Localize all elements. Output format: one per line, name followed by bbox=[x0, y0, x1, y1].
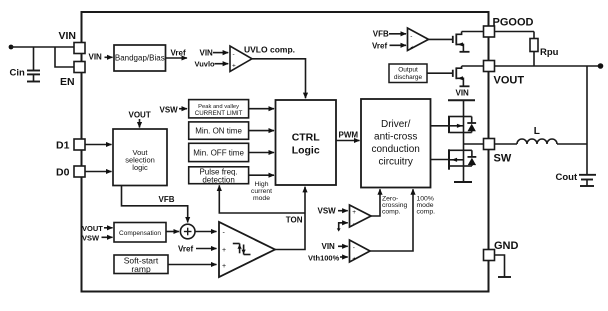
node VOUT into compensation bbox=[82, 224, 113, 233]
svg-text:VIN: VIN bbox=[59, 30, 77, 42]
svg-text:circuitry: circuitry bbox=[378, 157, 412, 168]
block current limit bbox=[189, 100, 249, 118]
svg-text:Min. ON time: Min. ON time bbox=[195, 127, 242, 136]
svg-text:UVLO comp.: UVLO comp. bbox=[244, 44, 295, 54]
op-amp UVLO comp U1 bbox=[195, 44, 296, 71]
comparator 100% mode bbox=[308, 240, 370, 263]
block Min OFF time bbox=[189, 143, 249, 161]
wire 100% mode output to driver bbox=[370, 189, 435, 251]
svg-text:Logic: Logic bbox=[292, 145, 320, 157]
pin VIN bbox=[59, 30, 86, 54]
diode body low-side bbox=[464, 150, 477, 166]
svg-text:current: current bbox=[251, 188, 272, 195]
svg-text:VOUT: VOUT bbox=[82, 224, 103, 233]
svg-text:SW: SW bbox=[494, 152, 512, 164]
block Soft-start ramp bbox=[114, 255, 168, 274]
svg-text:logic: logic bbox=[132, 163, 148, 172]
node input dot bbox=[9, 45, 14, 50]
IC boundary bbox=[82, 12, 489, 292]
svg-text:+: + bbox=[232, 63, 236, 70]
pin EN bbox=[60, 62, 85, 89]
transistor low-side Q2 bbox=[431, 144, 464, 182]
svg-text:VSW: VSW bbox=[160, 105, 179, 114]
wire PWM CTRL to driver bbox=[336, 131, 360, 141]
svg-text:discharge: discharge bbox=[394, 74, 423, 81]
svg-text:comp.: comp. bbox=[382, 209, 401, 216]
wire D0 to selection logic bbox=[85, 171, 112, 173]
pin VOUT bbox=[484, 61, 525, 87]
transistor PGOOD open-drain bbox=[429, 32, 484, 52]
transistor output discharge bbox=[427, 66, 484, 86]
wire compensation to summing node bbox=[166, 231, 179, 233]
pin D1 bbox=[56, 139, 85, 152]
block Pulse freq detection bbox=[189, 167, 249, 185]
svg-text:PGOOD: PGOOD bbox=[493, 17, 534, 29]
block Output discharge bbox=[389, 64, 427, 83]
block Vout selection logic bbox=[113, 129, 167, 186]
svg-text:conduction: conduction bbox=[372, 144, 420, 155]
svg-text:EN: EN bbox=[60, 76, 75, 88]
svg-text:detection: detection bbox=[202, 175, 234, 184]
power VIN supply bar bbox=[448, 89, 475, 101]
svg-text:D1: D1 bbox=[56, 140, 70, 152]
pin SW bbox=[484, 139, 512, 165]
capacitor Cin bbox=[10, 47, 41, 82]
capacitor Cout bbox=[556, 172, 597, 186]
resistor Rpu bbox=[495, 32, 559, 67]
svg-text:VIN: VIN bbox=[322, 242, 336, 251]
svg-text:-: - bbox=[223, 230, 226, 237]
svg-text:Vref: Vref bbox=[171, 49, 186, 58]
svg-text:GND: GND bbox=[494, 240, 519, 252]
block Min ON time bbox=[189, 122, 249, 139]
wire UVLO output to CTRL bbox=[252, 59, 306, 98]
svg-text:-: - bbox=[353, 244, 355, 251]
svg-text:VIN: VIN bbox=[200, 49, 214, 58]
wire D1 to selection logic bbox=[85, 144, 112, 146]
transistor high-side Q1 bbox=[431, 100, 464, 144]
wire branch to pulse freq detection bbox=[219, 185, 305, 213]
block Compensation bbox=[114, 223, 166, 243]
inductor L bbox=[495, 126, 588, 144]
node Vref into comparator bbox=[178, 244, 217, 253]
block CTRL Logic bbox=[276, 100, 337, 185]
node summing junction bbox=[180, 224, 195, 239]
wire min on to CTRL bbox=[249, 130, 274, 132]
svg-text:-: - bbox=[233, 51, 235, 58]
svg-text:-: - bbox=[353, 220, 355, 227]
node Vref output of bandgap bbox=[166, 49, 188, 58]
pin PGOOD bbox=[484, 17, 534, 38]
svg-text:Cout: Cout bbox=[556, 172, 578, 183]
wire pulse freq to CTRL high current mode bbox=[249, 175, 274, 202]
svg-text:+: + bbox=[410, 44, 414, 51]
wire VFB from selection logic to summing node bbox=[122, 186, 188, 223]
wire VIN input bbox=[11, 46, 74, 48]
svg-text:VIN: VIN bbox=[456, 89, 470, 98]
svg-text:VFB: VFB bbox=[159, 195, 175, 204]
svg-text:Cin: Cin bbox=[10, 68, 26, 79]
svg-text:PWM: PWM bbox=[339, 131, 359, 140]
pin D0 bbox=[56, 166, 85, 179]
svg-text:D0: D0 bbox=[56, 167, 70, 179]
svg-text:Vref: Vref bbox=[372, 41, 387, 50]
svg-text:+: + bbox=[352, 209, 356, 216]
svg-text:Bandgap/Bias: Bandgap/Bias bbox=[115, 54, 165, 63]
wire TON comparator output to CTRL bbox=[275, 187, 305, 250]
wire EN branch bbox=[55, 47, 74, 67]
svg-text:Min. OFF time: Min. OFF time bbox=[193, 149, 244, 158]
node VIN label to bandgap bbox=[89, 53, 113, 62]
node VOUT into selection logic bbox=[129, 111, 151, 128]
svg-text:VSW: VSW bbox=[318, 207, 337, 216]
ground low-side source bbox=[454, 181, 472, 183]
svg-text:High: High bbox=[255, 181, 269, 188]
op-amp PGOOD comparator bbox=[372, 28, 429, 51]
wire soft-start to comparator bbox=[168, 264, 217, 266]
wire VOUT net bbox=[495, 63, 604, 174]
svg-text:CTRL: CTRL bbox=[292, 132, 321, 144]
block Bandgap/Bias bbox=[114, 45, 166, 71]
svg-text:VOUT: VOUT bbox=[129, 111, 151, 120]
svg-text:Compensation: Compensation bbox=[119, 230, 161, 237]
svg-text:anti-cross: anti-cross bbox=[374, 132, 417, 143]
svg-text:L: L bbox=[534, 126, 540, 137]
block Driver anti-cross conduction circuitry bbox=[361, 99, 431, 188]
svg-text:Vth100%: Vth100% bbox=[308, 254, 340, 263]
svg-text:-: - bbox=[410, 33, 412, 40]
wire SW node bbox=[464, 143, 484, 145]
svg-text:Vuvlo: Vuvlo bbox=[195, 59, 216, 68]
svg-text:+: + bbox=[222, 247, 226, 254]
svg-text:+: + bbox=[222, 263, 226, 270]
svg-text:VFB: VFB bbox=[373, 30, 389, 39]
comparator main PWM comparator bbox=[219, 222, 275, 277]
svg-text:comp.: comp. bbox=[417, 209, 436, 216]
wire summing node to comparator bbox=[195, 231, 217, 233]
svg-text:mode: mode bbox=[253, 195, 270, 202]
svg-text:Output: Output bbox=[398, 67, 418, 74]
wire current limit to CTRL bbox=[249, 108, 274, 110]
svg-text:ramp: ramp bbox=[131, 264, 151, 274]
diode body high-side bbox=[464, 117, 477, 133]
svg-text:Vref: Vref bbox=[178, 244, 193, 253]
svg-text:VSW: VSW bbox=[82, 233, 100, 242]
comparator zero-crossing bbox=[318, 205, 372, 232]
svg-text:Driver/: Driver/ bbox=[381, 119, 411, 130]
svg-text:VIN: VIN bbox=[89, 53, 103, 62]
svg-text:Rpu: Rpu bbox=[540, 47, 559, 58]
node VSW into compensation bbox=[82, 233, 113, 242]
svg-text:VOUT: VOUT bbox=[494, 75, 525, 87]
pin GND bbox=[484, 240, 519, 261]
svg-text:+: + bbox=[352, 255, 356, 262]
wire zero-crossing output to driver bbox=[371, 189, 408, 216]
wire min off to CTRL bbox=[249, 152, 274, 154]
svg-text:CURRENT LIMIT: CURRENT LIMIT bbox=[195, 110, 243, 117]
ground GND external bbox=[495, 255, 512, 277]
svg-text:TON: TON bbox=[286, 215, 303, 224]
node VSW into current limit bbox=[160, 105, 188, 114]
